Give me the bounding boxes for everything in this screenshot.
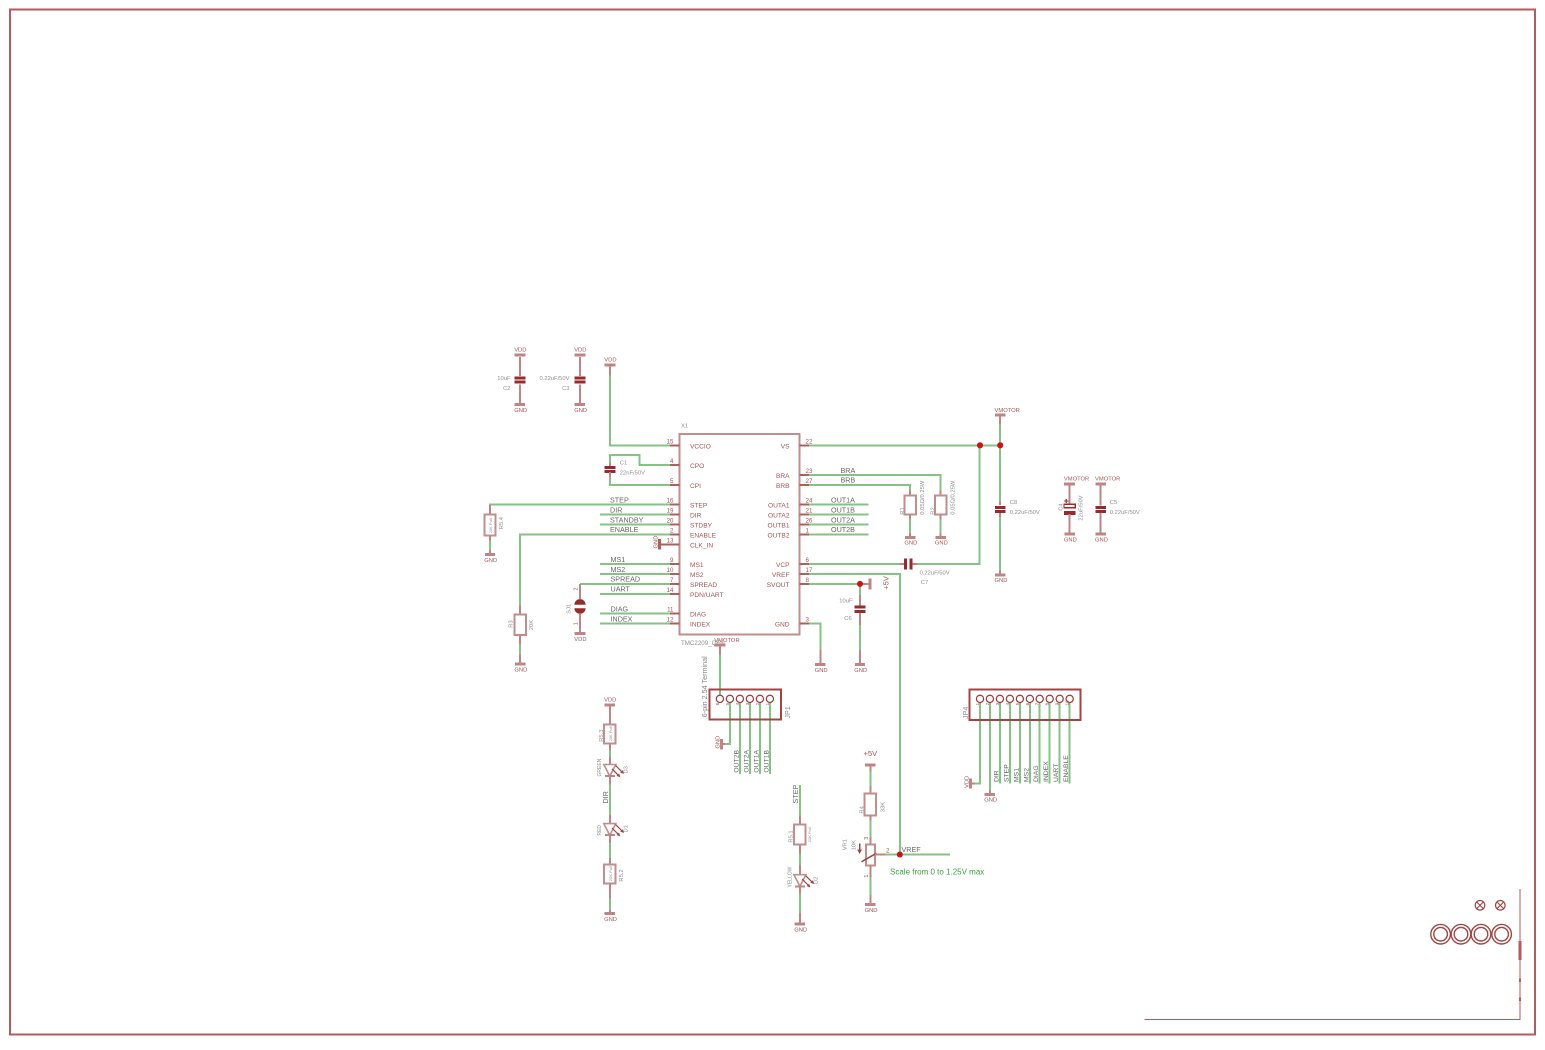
- svg-text:9: 9: [1055, 702, 1060, 705]
- svg-text:ENABLE: ENABLE: [690, 532, 717, 539]
- svg-text:2: 2: [755, 702, 760, 705]
- svg-text:20K: 20K: [529, 620, 535, 630]
- supply VMOTOR rail top: [995, 408, 1020, 425]
- svg-text:14: 14: [667, 587, 674, 594]
- svg-text:BRA: BRA: [776, 473, 790, 480]
- svg-text:VMOTOR: VMOTOR: [714, 638, 739, 644]
- svg-text:20: 20: [667, 518, 674, 525]
- svg-text:GND: GND: [715, 736, 721, 749]
- ground below C3: [574, 405, 587, 414]
- wire JP1 pin 2 OUT1A: [759, 702, 761, 775]
- svg-text:17: 17: [806, 567, 813, 574]
- svg-text:OUTA2: OUTA2: [768, 513, 790, 520]
- svg-text:1: 1: [806, 527, 810, 534]
- wire R1 bottom to GND: [909, 519, 911, 533]
- svg-text:DIR: DIR: [601, 791, 610, 803]
- svg-text:X1: X1: [681, 424, 688, 430]
- IC X1 TMC2209_QFN: [667, 424, 813, 647]
- wire C3 leads: [579, 357, 581, 375]
- svg-text:22uF/50V: 22uF/50V: [1079, 495, 1085, 520]
- ground below LED chain: [604, 910, 617, 923]
- ground below C5: [1095, 534, 1108, 543]
- svg-text:YELLOW: YELLOW: [787, 866, 793, 887]
- resistor R3 20K on ENABLE: [508, 605, 535, 645]
- svg-text:GND: GND: [604, 917, 617, 923]
- wire STEP net to R5.1: [799, 785, 801, 824]
- supply VDD for LED chain: [604, 698, 616, 711]
- svg-text:7: 7: [1035, 702, 1040, 705]
- svg-text:R5.2: R5.2: [619, 869, 625, 881]
- svg-text:C6: C6: [844, 616, 851, 622]
- ground at JP4 pin 2: [984, 790, 997, 804]
- svg-text:8: 8: [1045, 702, 1050, 705]
- svg-text:OUTB2: OUTB2: [768, 532, 790, 539]
- svg-text:MS1: MS1: [690, 562, 704, 569]
- svg-text:20K Pull: 20K Pull: [488, 518, 493, 533]
- svg-text:OUT1A: OUT1A: [831, 496, 855, 505]
- svg-text:11: 11: [667, 607, 674, 614]
- svg-text:3: 3: [745, 702, 750, 705]
- supply VDD main rail: [604, 358, 616, 376]
- capacitor C6 10uF on SVOUT: [839, 595, 865, 625]
- wire JP4 pin 3: [999, 702, 1001, 784]
- wire R5.4 bottom to GND: [489, 540, 491, 551]
- wire JP4 pin 7: [1039, 702, 1041, 784]
- svg-text:21: 21: [806, 508, 813, 515]
- wire R3 bottom to GND: [519, 644, 521, 655]
- potentiometer VR1 10K: [843, 837, 890, 878]
- supply VDD for C2: [514, 348, 526, 355]
- mounting hole pad 3: [1471, 924, 1491, 944]
- svg-text:MS1: MS1: [611, 555, 626, 564]
- wire OUT2A stub from OUTB1 pin 26: [809, 524, 869, 526]
- svg-text:GND: GND: [794, 928, 807, 934]
- wire VREF from pin 17 down to potentiometer: [809, 574, 900, 855]
- svg-text:7: 7: [670, 577, 674, 584]
- svg-text:DIR: DIR: [993, 770, 1000, 782]
- svg-text:OUT2B: OUT2B: [831, 525, 855, 534]
- capacitor C5 0.22uF/50V: [1095, 484, 1140, 534]
- svg-text:OUTB1: OUTB1: [768, 523, 790, 530]
- svg-text:+5V: +5V: [864, 749, 879, 758]
- svg-text:UART: UART: [1053, 764, 1060, 782]
- svg-text:3: 3: [864, 837, 870, 840]
- svg-text:OUTA1: OUTA1: [768, 503, 790, 510]
- svg-text:16: 16: [667, 498, 674, 505]
- svg-text:C2: C2: [503, 386, 510, 392]
- resistor R1 0.05ohm: [900, 480, 926, 520]
- svg-text:CLK_IN: CLK_IN: [690, 542, 713, 549]
- svg-text:STEP: STEP: [610, 495, 629, 504]
- wire D1 to R5.2: [609, 843, 611, 859]
- svg-text:2: 2: [985, 702, 990, 705]
- svg-text:5: 5: [670, 478, 674, 485]
- svg-text:MS2: MS2: [690, 572, 704, 579]
- wire JP1 pin 1 OUT1B: [769, 702, 771, 775]
- svg-text:6-pin 2.54 Terminal: 6-pin 2.54 Terminal: [700, 656, 709, 717]
- svg-text:R1: R1: [900, 507, 906, 514]
- svg-text:VDD: VDD: [604, 698, 616, 704]
- svg-text:C8: C8: [1010, 500, 1017, 506]
- svg-text:23: 23: [806, 468, 813, 475]
- resistor R5.2 20K pull: [604, 858, 625, 898]
- svg-text:VDD: VDD: [574, 637, 586, 643]
- capacitor C4 22uF/50V electrolytic: [1058, 484, 1084, 534]
- svg-text:33K: 33K: [880, 802, 886, 812]
- svg-text:VDD: VDD: [574, 348, 586, 354]
- svg-text:BRB: BRB: [776, 483, 790, 490]
- LED D2 YELLOW: [787, 865, 819, 893]
- svg-text:UART: UART: [611, 585, 631, 594]
- svg-text:D1: D1: [624, 825, 630, 832]
- wire DIR net between D3 and D1: [609, 781, 611, 824]
- ground below D2: [794, 913, 807, 934]
- wire BRA to R2: [809, 475, 941, 491]
- wire JP4 pin 5: [1019, 702, 1021, 784]
- wire C5 leads: [1100, 486, 1102, 505]
- svg-text:22nF/50V: 22nF/50V: [620, 470, 645, 476]
- wire VDD to VCCIO pin 15: [610, 375, 671, 446]
- svg-text:20K Pull: 20K Pull: [608, 866, 613, 881]
- svg-text:BRB: BRB: [841, 476, 856, 485]
- supply VDD below SJ1: [574, 634, 586, 643]
- ground below VR1: [865, 895, 878, 914]
- LED D1 RED: [597, 815, 629, 843]
- svg-text:GND: GND: [984, 798, 997, 804]
- svg-text:C3: C3: [562, 386, 569, 392]
- svg-text:26: 26: [806, 518, 813, 525]
- svg-text:1: 1: [765, 702, 770, 705]
- svg-text:GND: GND: [865, 908, 878, 914]
- supply +5V at SVOUT: [860, 575, 891, 590]
- svg-text:OUT1A: OUT1A: [754, 749, 761, 772]
- wire VMOTOR rail down through C8 to GND: [999, 424, 1001, 502]
- wire +5V to R4: [869, 771, 871, 787]
- svg-text:VDD: VDD: [964, 776, 970, 788]
- svg-text:GND: GND: [775, 622, 790, 629]
- svg-text:SVOUT: SVOUT: [767, 582, 790, 589]
- wire OUT2B stub from OUTB2 pin 1: [809, 533, 869, 535]
- connector JP1 6-pin terminal: [700, 656, 792, 720]
- wire VDD to R5.3 LED chain: [609, 750, 611, 757]
- svg-text:GND: GND: [653, 536, 659, 549]
- svg-text:C7: C7: [921, 580, 928, 586]
- svg-text:22: 22: [806, 438, 813, 445]
- svg-text:C5: C5: [1110, 500, 1117, 506]
- svg-text:VMOTOR: VMOTOR: [995, 408, 1020, 414]
- wire R5.1 to LED D2: [799, 854, 801, 866]
- svg-text:STEP: STEP: [1003, 764, 1010, 782]
- svg-text:R2: R2: [930, 507, 936, 514]
- svg-text:0.22uF/50V: 0.22uF/50V: [540, 376, 570, 382]
- junction: [857, 581, 863, 587]
- svg-text:19: 19: [667, 508, 674, 515]
- ground below R2: [935, 533, 948, 547]
- svg-text:GND: GND: [514, 408, 527, 414]
- svg-text:10uF: 10uF: [839, 598, 853, 604]
- ground below R5.4: [484, 550, 497, 564]
- connector JP4 10-pin header: [961, 689, 1080, 720]
- supply VMOTOR above JP1: [714, 638, 739, 655]
- svg-text:GND: GND: [904, 541, 917, 547]
- svg-text:10: 10: [1065, 700, 1070, 706]
- supply VDD at JP4 pin 1: [964, 776, 975, 789]
- svg-text:DIAG: DIAG: [1033, 765, 1040, 782]
- wire JP4 pin 8: [1049, 702, 1051, 784]
- ground at CLK_IN pin 13: [653, 536, 679, 550]
- junction: [897, 851, 903, 857]
- svg-text:GREEN: GREEN: [597, 758, 603, 776]
- resistor R5.1 20K pull: [789, 815, 813, 854]
- svg-text:5: 5: [725, 702, 730, 705]
- wire JP4 pin 6: [1029, 702, 1031, 784]
- svg-text:3: 3: [806, 617, 810, 624]
- ground below R3: [514, 655, 527, 674]
- wire SPREAD net to SJ1: [580, 583, 671, 585]
- svg-text:VREF: VREF: [902, 845, 922, 854]
- svg-text:R5.1: R5.1: [789, 830, 795, 842]
- svg-text:INDEX: INDEX: [611, 614, 633, 623]
- svg-text:OUT1B: OUT1B: [831, 505, 855, 514]
- svg-text:1: 1: [574, 622, 580, 625]
- solder jumper SJ1: [566, 584, 585, 634]
- capacitor C1 22nF/50V: [605, 461, 645, 478]
- supply VMOTOR for C4: [1064, 477, 1089, 484]
- svg-text:VMOTOR: VMOTOR: [1095, 477, 1120, 483]
- wire JP4 pin 4: [1009, 702, 1011, 784]
- wire D2 to GND: [799, 893, 801, 913]
- wire MS2 net stub: [600, 573, 671, 575]
- svg-text:GND: GND: [815, 668, 828, 674]
- svg-text:6: 6: [806, 557, 810, 564]
- resistor R5.4 20K pull on STEP: [484, 505, 505, 541]
- wire UART net stub: [600, 593, 671, 595]
- svg-text:0.22uF/50V: 0.22uF/50V: [1110, 510, 1140, 516]
- svg-text:VS: VS: [781, 443, 790, 450]
- svg-text:VDD: VDD: [604, 358, 616, 364]
- svg-text:C1: C1: [620, 461, 627, 467]
- svg-text:Scale from 0 to 1.25V max: Scale from 0 to 1.25V max: [890, 868, 984, 877]
- svg-text:0.05Ω/0.25W: 0.05Ω/0.25W: [951, 480, 957, 515]
- svg-text:D3: D3: [624, 766, 630, 773]
- mounting hole pad 2: [1451, 924, 1471, 944]
- svg-text:4: 4: [1005, 702, 1010, 705]
- svg-text:20K Pull: 20K Pull: [608, 726, 613, 741]
- svg-text:12: 12: [667, 617, 674, 624]
- capacitor C3 0.22uF/50V: [540, 357, 586, 405]
- svg-text:STEP: STEP: [690, 503, 708, 510]
- svg-text:DIR: DIR: [690, 513, 702, 520]
- mounting hole H1: [1475, 901, 1485, 911]
- svg-text:R4: R4: [860, 805, 866, 813]
- svg-text:INDEX: INDEX: [1043, 761, 1050, 782]
- svg-text:10K: 10K: [851, 840, 857, 850]
- wire R5.2 to GND: [609, 898, 611, 911]
- wire CPI to C1 bottom: [610, 477, 671, 485]
- mounting hole H2: [1496, 901, 1506, 911]
- svg-text:5: 5: [1015, 702, 1020, 705]
- svg-text:GND: GND: [1064, 537, 1077, 543]
- svg-text:CPO: CPO: [690, 463, 704, 470]
- svg-text:6: 6: [715, 702, 720, 705]
- resistor R2 0.05ohm: [930, 480, 956, 520]
- svg-text:OUT2A: OUT2A: [831, 515, 855, 524]
- junction: [997, 442, 1003, 448]
- svg-text:ENABLE: ENABLE: [1063, 755, 1070, 782]
- wire JP4 pin 2 to GND: [989, 702, 991, 791]
- supply VDD for C3: [574, 348, 586, 355]
- LED D3 GREEN: [597, 757, 629, 785]
- wire OUT1B stub from OUTA2 pin 21: [809, 514, 869, 516]
- wire DIR net stub: [600, 514, 671, 516]
- svg-text:STEP: STEP: [791, 785, 800, 804]
- wire JP1 pin 5 to GND: [725, 702, 730, 745]
- supply +5V for divider: [864, 749, 879, 771]
- svg-text:VDD: VDD: [514, 348, 526, 354]
- capacitor C2 10uF: [497, 357, 525, 405]
- svg-text:SJ1: SJ1: [566, 604, 572, 614]
- wire JP4 pin 1 to VDD: [975, 702, 981, 784]
- wire OUT1A stub from OUTA1 pin 24: [809, 504, 869, 506]
- wire R2 bottom to GND: [940, 519, 942, 533]
- svg-text:6: 6: [1025, 702, 1030, 705]
- wire VREF tail right of junction: [900, 854, 950, 856]
- svg-text:4: 4: [735, 702, 740, 705]
- wire JP4 pin 10: [1069, 702, 1071, 784]
- svg-text:RED: RED: [597, 825, 603, 836]
- wire JP4 pin 9: [1059, 702, 1061, 784]
- wire R4 to VR1: [869, 820, 871, 838]
- svg-text:R5.3: R5.3: [599, 730, 605, 742]
- svg-text:MS2: MS2: [611, 565, 626, 574]
- svg-text:MS1: MS1: [1013, 768, 1020, 782]
- svg-text:INDEX: INDEX: [690, 622, 711, 629]
- svg-text:DIAG: DIAG: [611, 604, 629, 613]
- svg-text:10: 10: [667, 567, 674, 574]
- wire VCP through C7 up to VS rail: [809, 563, 901, 565]
- mounting hole pad 1: [1431, 924, 1451, 944]
- svg-text:SPREAD: SPREAD: [611, 575, 641, 584]
- wire INDEX net stub: [600, 623, 671, 625]
- svg-text:24: 24: [806, 498, 813, 505]
- svg-text:1: 1: [975, 702, 980, 705]
- ground below C2: [514, 405, 527, 414]
- svg-text:MS2: MS2: [1023, 768, 1030, 782]
- svg-text:+5V: +5V: [882, 575, 891, 590]
- ground at JP1 pin 5: [715, 736, 725, 750]
- svg-text:13: 13: [667, 537, 674, 544]
- svg-text:GND: GND: [484, 558, 497, 564]
- svg-text:OUT2B: OUT2B: [734, 749, 741, 772]
- wire JP1 pin 4 OUT2B: [739, 702, 741, 775]
- mounting hole pad 4: [1492, 924, 1512, 944]
- wire CPO to C1 top: [610, 455, 671, 465]
- svg-text:OUT1B: OUT1B: [764, 749, 771, 772]
- wire DIAG net stub: [600, 613, 671, 615]
- svg-text:JP4: JP4: [961, 707, 970, 719]
- svg-text:2: 2: [886, 847, 890, 854]
- svg-text:GND: GND: [854, 668, 867, 674]
- svg-text:OUT2A: OUT2A: [744, 749, 751, 772]
- wire BRB to R1: [809, 485, 911, 491]
- wire C2 leads: [519, 357, 521, 375]
- supply VMOTOR for C5: [1095, 477, 1120, 484]
- wire VMOTOR to JP1 pin 6: [719, 654, 721, 699]
- svg-text:DIR: DIR: [610, 505, 622, 514]
- svg-text:R3: R3: [508, 620, 514, 627]
- svg-text:STDBY: STDBY: [690, 523, 713, 530]
- wire STEP net to pin 16 and R5.4: [490, 505, 671, 514]
- svg-text:27: 27: [806, 478, 813, 485]
- svg-text:GND: GND: [995, 578, 1008, 584]
- svg-text:BRA: BRA: [841, 466, 856, 475]
- svg-text:VREF: VREF: [772, 572, 790, 579]
- svg-text:0.22uF/50V: 0.22uF/50V: [1010, 510, 1040, 516]
- wire SVOUT to +5V and C6: [809, 583, 861, 585]
- junction: [977, 442, 983, 448]
- svg-text:VCCIO: VCCIO: [690, 443, 711, 450]
- svg-text:JP1: JP1: [783, 706, 792, 718]
- capacitor C7 0.22uF/50V on VCP: [900, 559, 950, 586]
- resistor R5.3 20K pull: [599, 705, 616, 751]
- svg-text:CPI: CPI: [690, 483, 701, 490]
- svg-text:VR1: VR1: [843, 839, 849, 850]
- svg-text:9: 9: [670, 557, 674, 564]
- svg-text:R5.4: R5.4: [499, 516, 505, 529]
- wire MS1 net stub: [600, 563, 671, 565]
- svg-text:2: 2: [670, 527, 674, 534]
- wire ENABLE net to pin 2 and R3: [520, 534, 671, 605]
- wire IC GND pin 3 to ground: [809, 624, 821, 651]
- svg-text:4: 4: [670, 458, 674, 465]
- svg-text:3: 3: [995, 702, 1000, 705]
- ground below C8: [995, 571, 1008, 585]
- svg-text:15: 15: [667, 438, 674, 445]
- svg-text:8: 8: [806, 577, 810, 584]
- svg-text:1: 1: [864, 875, 870, 878]
- svg-text:2: 2: [574, 587, 580, 590]
- svg-text:20K Pull: 20K Pull: [807, 827, 812, 842]
- resistor R4 33K: [860, 786, 887, 821]
- wire VR1 to GND: [869, 877, 871, 896]
- svg-text:0.22uF/50V: 0.22uF/50V: [920, 570, 950, 576]
- svg-text:GND: GND: [1095, 537, 1108, 543]
- svg-text:VCP: VCP: [776, 562, 790, 569]
- wire STANDBY net stub: [600, 524, 671, 526]
- svg-text:C4: C4: [1058, 503, 1064, 511]
- svg-text:STANDBY: STANDBY: [610, 515, 644, 524]
- ground for IC pin 3: [815, 650, 828, 674]
- svg-text:ENABLE: ENABLE: [610, 525, 639, 534]
- capacitor C8 0.22uF/50V: [995, 500, 1040, 517]
- wire VS to VMOTOR rail: [809, 444, 1001, 446]
- wire wiper to VREF junction: [885, 854, 900, 856]
- svg-text:DIAG: DIAG: [690, 612, 706, 619]
- svg-text:10uF: 10uF: [497, 376, 511, 382]
- svg-text:GND: GND: [514, 668, 527, 674]
- svg-text:SPREAD: SPREAD: [690, 582, 717, 589]
- ground below R1: [904, 533, 917, 547]
- board outline lines: [1145, 889, 1520, 1020]
- ground below C4: [1064, 534, 1077, 543]
- wire C4 leads: [1069, 486, 1071, 504]
- svg-text:0.05Ω/0.25W: 0.05Ω/0.25W: [920, 480, 926, 515]
- ground below C6: [854, 650, 867, 674]
- svg-text:D2: D2: [814, 877, 820, 884]
- wire JP1 pin 3 OUT2A: [749, 702, 751, 775]
- wire C6 to GND: [859, 617, 861, 661]
- svg-text:VMOTOR: VMOTOR: [1064, 477, 1089, 483]
